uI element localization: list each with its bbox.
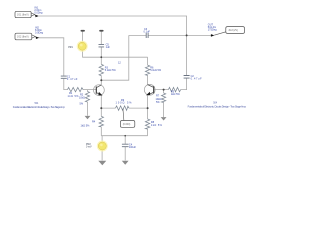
- svg-text:JG1 (8mV): JG1 (8mV): [17, 14, 29, 17]
- svg-text:0.47uF: 0.47uF: [191, 78, 202, 81]
- svg-text:1uF: 1uF: [106, 46, 111, 49]
- svg-text:5.1kΩ 5%: 5.1kΩ 5%: [150, 69, 162, 72]
- svg-text:1kΩ 5%: 1kΩ 5%: [68, 95, 80, 98]
- svg-text:Fundamentals of Electronic Cir: Fundamentals of Electronic Circuits Desi…: [188, 105, 247, 109]
- svg-text:1kΩ 5%: 1kΩ 5%: [151, 124, 163, 127]
- svg-text:0.0Deg: 0.0Deg: [35, 32, 44, 35]
- svg-text:PR1: PR1: [68, 46, 73, 49]
- svg-text:0 mV: 0 mV: [86, 146, 92, 149]
- svg-text:1kΩ 5%: 1kΩ 5%: [171, 93, 181, 96]
- svg-text:0.47uF: 0.47uF: [67, 78, 78, 81]
- svg-text:100uF: 100uF: [129, 146, 137, 149]
- svg-text:5.1kΩ 5%: 5.1kΩ 5%: [105, 69, 117, 72]
- svg-text:175Deg: 175Deg: [208, 29, 217, 32]
- svg-text:JG3 (2V): JG3 (2V): [228, 29, 238, 32]
- svg-text:100Ω 5%: 100Ω 5%: [116, 102, 133, 105]
- svg-text:10kΩ: 10kΩ: [79, 97, 85, 100]
- svg-text:(0.000): (0.000): [123, 123, 131, 126]
- svg-text:0.1uF: 0.1uF: [144, 30, 151, 33]
- svg-text:JG2 (8mV): JG2 (8mV): [17, 36, 29, 39]
- svg-text:1kΩ 5%: 1kΩ 5%: [81, 125, 91, 128]
- svg-text:0.0Deg: 0.0Deg: [34, 12, 43, 15]
- svg-text:Fundamentals of Electronic Cir: Fundamentals of Electronic Circuits Desi…: [13, 105, 66, 109]
